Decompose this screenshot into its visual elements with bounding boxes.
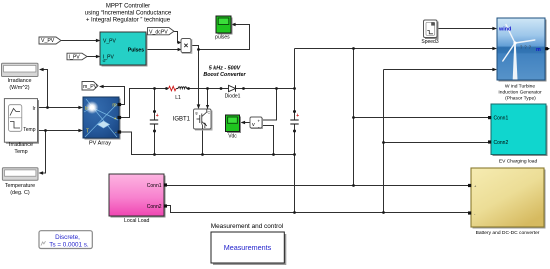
svg-text:Temp: Temp — [14, 149, 27, 155]
svg-text:MPPT Controller: MPPT Controller — [106, 3, 150, 9]
svg-text:Conn1: Conn1 — [494, 116, 509, 122]
svg-text:Speed3: Speed3 — [421, 39, 438, 45]
svg-text:I_PV: I_PV — [103, 55, 115, 61]
svg-text:(W/m^2): (W/m^2) — [9, 85, 29, 91]
svg-text:v: v — [252, 122, 255, 128]
svg-text:Local Load: Local Load — [124, 218, 149, 224]
svg-text:V_dcPV: V_dcPV — [149, 29, 168, 35]
svg-text:(deg. C): (deg. C) — [10, 190, 30, 196]
svg-text:Pulses: Pulses — [128, 48, 144, 54]
svg-text:V_PV: V_PV — [41, 38, 55, 44]
svg-text:Conn2: Conn2 — [147, 204, 162, 210]
svg-text:m: m — [536, 47, 541, 53]
svg-text:wind: wind — [498, 27, 511, 33]
svg-text:I_PV: I_PV — [69, 55, 81, 61]
svg-text:Ir: Ir — [32, 106, 35, 112]
svg-text:IGBT1: IGBT1 — [173, 117, 191, 123]
svg-text:g: g — [196, 111, 198, 115]
svg-text:Temp: Temp — [23, 127, 35, 133]
svg-text:Temperature: Temperature — [5, 183, 35, 189]
svg-text:+: + — [258, 119, 261, 124]
svg-text:+: + — [156, 113, 159, 119]
svg-text:EV Charging load: EV Charging load — [499, 158, 538, 164]
svg-text:5 kHz - 500V: 5 kHz - 500V — [209, 65, 241, 71]
svg-text:Vdc: Vdc — [228, 133, 237, 139]
svg-text:W ind Turbine: W ind Turbine — [505, 84, 535, 90]
svg-text:Measurements: Measurements — [224, 243, 272, 252]
svg-text:Conn2: Conn2 — [494, 140, 509, 146]
svg-text:m: m — [112, 103, 116, 109]
svg-text:m_PV: m_PV — [83, 84, 98, 90]
svg-text:+: + — [296, 113, 299, 119]
svg-text:T: T — [86, 129, 89, 135]
svg-text:Conn1: Conn1 — [147, 183, 162, 189]
svg-text:L1: L1 — [175, 95, 181, 101]
svg-text:Induction Generator: Induction Generator — [498, 90, 542, 96]
svg-text:Boost Converter: Boost Converter — [203, 72, 246, 78]
svg-text:V_PV: V_PV — [103, 39, 116, 45]
svg-text:Battery and DC-DC converter: Battery and DC-DC converter — [476, 230, 540, 236]
svg-text:+: + — [114, 116, 117, 122]
svg-text:Measurement and control: Measurement and control — [211, 223, 283, 230]
svg-text:using “Incremental Conductance: using “Incremental Conductance — [85, 11, 172, 17]
svg-text:(Phasor Type): (Phasor Type) — [505, 96, 536, 102]
svg-text:Diode1: Diode1 — [225, 94, 241, 100]
svg-text:Ir: Ir — [85, 106, 88, 112]
svg-text:+ Integral Regulator ” techni: + Integral Regulator ” technique — [86, 17, 171, 23]
svg-text:PV Array: PV Array — [89, 141, 111, 147]
svg-text:Ts = 0.0001 s.: Ts = 0.0001 s. — [49, 241, 89, 248]
svg-text:Irradiance: Irradiance — [9, 142, 33, 148]
svg-text:pulses: pulses — [215, 34, 230, 40]
svg-text:Irradiance: Irradiance — [8, 78, 32, 84]
svg-text:Discrete,: Discrete, — [55, 234, 80, 241]
